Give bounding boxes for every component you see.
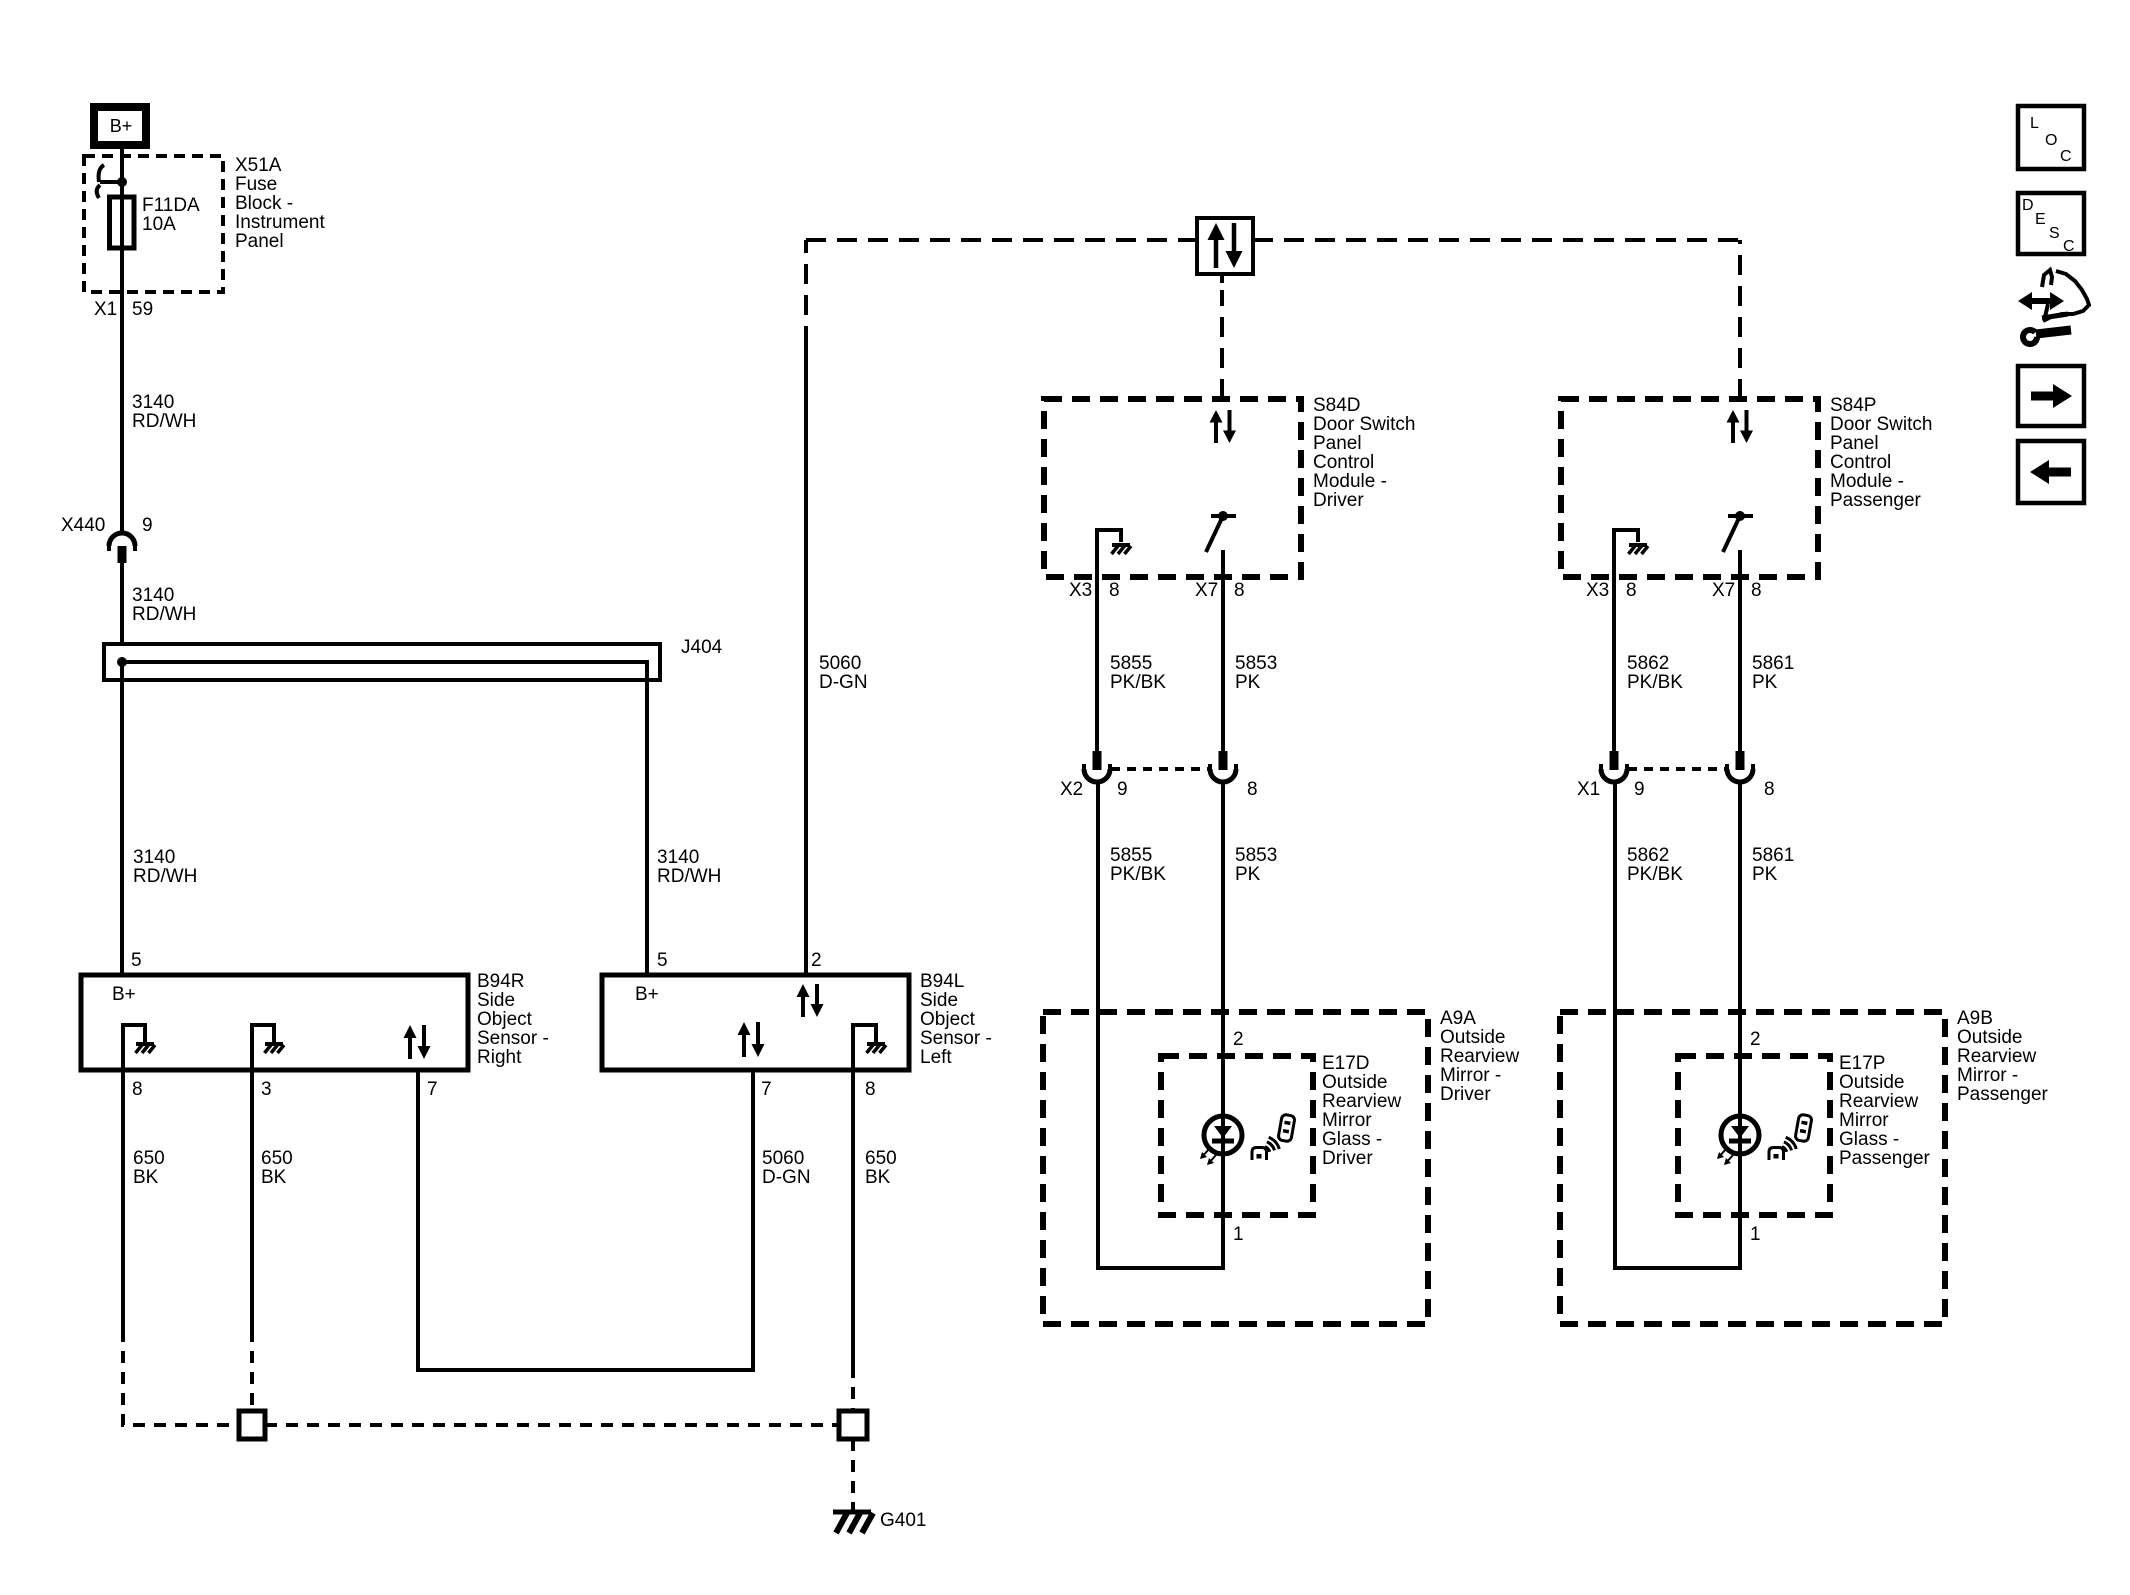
wire LED return (Passenger) <box>1738 1153 1742 1270</box>
svg-text:PK/BK: PK/BK <box>1627 864 1683 885</box>
svg-text:1: 1 <box>1233 1224 1244 1245</box>
svg-text:BK: BK <box>261 1167 287 1188</box>
wire LED return (Driver) <box>1221 1153 1225 1270</box>
svg-text:X3: X3 <box>1069 580 1092 601</box>
connector X2 female arc left (Driver) <box>1084 769 1110 782</box>
svg-text:Control: Control <box>1313 452 1374 473</box>
junction dot in J404 <box>117 657 127 667</box>
connector X1 male pin left (Passenger) <box>1610 751 1619 770</box>
serial data symbol box <box>1197 218 1253 274</box>
svg-text:Side: Side <box>477 990 515 1011</box>
mirror glass module E17P dashed box <box>1678 1056 1830 1215</box>
svg-text:BK: BK <box>865 1167 891 1188</box>
svg-text:A9B: A9B <box>1957 1008 1993 1029</box>
module B94R box <box>81 975 468 1070</box>
svg-text:Outside: Outside <box>1322 1072 1387 1093</box>
side object warning icon (E17P) <box>1795 1114 1812 1142</box>
svg-text:Left: Left <box>920 1047 952 1068</box>
module S84D dashed box <box>1044 399 1301 577</box>
junction dot at fuse feed <box>117 177 127 187</box>
mirror assembly A9A dashed box <box>1043 1012 1428 1324</box>
switch contact bar inside S84P <box>1728 514 1753 518</box>
wire B94L pin 8 650 BK dashed to splice <box>851 1366 855 1411</box>
svg-text:650: 650 <box>133 1148 165 1169</box>
fuse F11DA 10A symbol <box>110 197 135 248</box>
svg-text:Side: Side <box>920 990 958 1011</box>
connector X2 male pin right (Driver) <box>1219 751 1228 770</box>
connector X2 tie line (Driver) <box>1111 767 1209 771</box>
battery feed B+ terminal box <box>94 107 146 145</box>
switch lead inside S84D <box>1221 550 1225 579</box>
switch blade inside S84P <box>1723 518 1739 552</box>
svg-text:X3: X3 <box>1586 580 1609 601</box>
svg-text:D-GN: D-GN <box>819 672 868 693</box>
svg-text:Outside: Outside <box>1839 1072 1904 1093</box>
B94R serial data arrows pin 7 <box>404 1025 417 1038</box>
B94L internal ground lead pin 8 <box>853 1025 876 1070</box>
svg-text:Sensor -: Sensor - <box>477 1028 549 1049</box>
icon back arrow box <box>2018 441 2084 503</box>
svg-text:C: C <box>2060 148 2072 165</box>
ground symbol B94R pin 3 <box>265 1042 283 1046</box>
svg-text:5853: 5853 <box>1235 653 1277 674</box>
svg-text:Driver: Driver <box>1313 490 1364 511</box>
wire through fuse <box>120 199 124 248</box>
svg-text:Passenger: Passenger <box>1957 1084 2049 1105</box>
svg-text:650: 650 <box>261 1148 293 1169</box>
svg-text:S84P: S84P <box>1830 395 1876 416</box>
switch contact dot inside S84P <box>1735 511 1745 521</box>
svg-text:B+: B+ <box>112 984 136 1005</box>
B94R internal ground lead pin 8 <box>123 1025 145 1070</box>
wire B94L pin 8 650 BK solid <box>851 1070 855 1366</box>
wire 5853 PK to mirror LED (Driver) <box>1221 782 1225 1270</box>
svg-text:5: 5 <box>657 950 668 971</box>
svg-text:3140: 3140 <box>132 585 174 606</box>
mirror assembly A9B dashed box <box>1560 1012 1945 1324</box>
svg-text:650: 650 <box>865 1148 897 1169</box>
ground bus dashed horizontal <box>265 1423 839 1427</box>
connector X1 male pin right (Passenger) <box>1736 751 1745 770</box>
bus wire inside J404 to right leg <box>122 662 647 975</box>
svg-text:O: O <box>2045 132 2057 149</box>
svg-text:RD/WH: RD/WH <box>133 866 197 887</box>
switch blade inside S84D <box>1206 518 1222 552</box>
svg-text:Rearview: Rearview <box>1322 1091 1401 1112</box>
icon forward arrow box <box>2018 366 2084 426</box>
wire return bottom link (Passenger) <box>1613 1266 1742 1270</box>
svg-text:X7: X7 <box>1195 580 1218 601</box>
switch contact bar inside S84D <box>1211 514 1236 518</box>
S84D serial data arrows <box>1210 410 1223 423</box>
svg-text:Right: Right <box>477 1047 522 1068</box>
wire fuse to connector X1-59 <box>120 248 124 533</box>
wire 5861 PK from X7-8 (Passenger) <box>1738 579 1742 751</box>
svg-text:59: 59 <box>132 299 153 320</box>
splice box (left) <box>239 1411 265 1439</box>
svg-text:Mirror: Mirror <box>1322 1110 1372 1131</box>
wire 5862 PK/BK from X3-8 (Passenger) <box>1612 579 1616 751</box>
svg-text:PK: PK <box>1235 672 1261 693</box>
wire J404 down to B94R pin 5 <box>120 662 124 975</box>
svg-text:7: 7 <box>761 1079 772 1100</box>
svg-text:C: C <box>2063 238 2075 255</box>
S84P internal ground lead <box>1614 530 1638 579</box>
S84P serial data arrows <box>1727 410 1740 423</box>
in-line connector X440 (female arc) <box>109 533 135 546</box>
svg-text:9: 9 <box>1634 779 1645 800</box>
svg-text:PK: PK <box>1752 672 1778 693</box>
svg-text:BK: BK <box>133 1167 159 1188</box>
connector X1 female arc right (Passenger) <box>1727 769 1753 782</box>
indicator LED E17D <box>1204 1116 1242 1154</box>
svg-text:3140: 3140 <box>132 392 174 413</box>
svg-text:2: 2 <box>1750 1029 1761 1050</box>
connector X1 female arc left (Passenger) <box>1601 769 1627 782</box>
svg-text:PK/BK: PK/BK <box>1110 864 1166 885</box>
S84D internal ground lead <box>1097 530 1121 579</box>
serial data arrows in box <box>1208 223 1225 240</box>
svg-text:Rearview: Rearview <box>1957 1046 2036 1067</box>
svg-text:8: 8 <box>1234 580 1245 601</box>
svg-text:3: 3 <box>261 1079 272 1100</box>
svg-text:E: E <box>2035 211 2046 228</box>
svg-text:Mirror: Mirror <box>1839 1110 1889 1131</box>
data bus dashed drop to S84D <box>1220 275 1224 283</box>
ground symbol B94R pin 8 <box>136 1042 154 1046</box>
svg-text:S: S <box>2049 225 2060 242</box>
ground symbol inside S84P <box>1629 543 1647 547</box>
wire X440 to splice J404 <box>120 561 124 646</box>
data bus dashed horizontal left <box>806 238 1196 242</box>
svg-text:5862: 5862 <box>1627 845 1669 866</box>
svg-text:2: 2 <box>1233 1029 1244 1050</box>
B94L serial data arrows pin 7 <box>738 1022 751 1035</box>
svg-text:5861: 5861 <box>1752 653 1794 674</box>
svg-text:PK/BK: PK/BK <box>1110 672 1166 693</box>
svg-text:B94R: B94R <box>477 971 525 992</box>
connector X2 male pin left (Driver) <box>1093 751 1102 770</box>
switch lead inside S84P <box>1738 550 1742 579</box>
svg-text:S84D: S84D <box>1313 395 1361 416</box>
wire 5855 PK/BK to mirror (Driver) <box>1096 782 1100 1270</box>
svg-text:B+: B+ <box>110 116 133 136</box>
svg-text:Control: Control <box>1830 452 1891 473</box>
svg-text:PK: PK <box>1752 864 1778 885</box>
svg-text:7: 7 <box>427 1079 438 1100</box>
svg-text:F11DA: F11DA <box>142 195 200 216</box>
svg-text:8: 8 <box>132 1079 143 1100</box>
svg-text:5853: 5853 <box>1235 845 1277 866</box>
icon DESC box <box>2018 193 2084 254</box>
data bus dashed drop to S84P <box>1738 240 1742 399</box>
svg-text:Fuse: Fuse <box>235 174 277 195</box>
ground symbol G401 <box>833 1510 871 1515</box>
svg-text:3140: 3140 <box>657 847 699 868</box>
svg-text:Mirror -: Mirror - <box>1957 1065 2018 1086</box>
svg-text:X1: X1 <box>1577 779 1600 800</box>
connector X1 tie line (Passenger) <box>1628 767 1726 771</box>
svg-text:Passenger: Passenger <box>1839 1148 1931 1169</box>
svg-text:8: 8 <box>1626 580 1637 601</box>
wire 5060 dashed vertical to data bus <box>804 240 808 346</box>
ground symbol inside S84D <box>1112 543 1130 547</box>
wire B94R pin 8 650 BK dashed off-page <box>123 1330 237 1425</box>
svg-text:E17P: E17P <box>1839 1053 1885 1074</box>
side object warning icon (E17D) <box>1278 1114 1295 1142</box>
svg-text:Module -: Module - <box>1830 471 1904 492</box>
svg-text:9: 9 <box>1117 779 1128 800</box>
svg-text:Door Switch: Door Switch <box>1830 414 1932 435</box>
wire return bottom link (Driver) <box>1096 1266 1225 1270</box>
svg-text:Object: Object <box>920 1009 976 1030</box>
wire B94R pin7 to B94L pin7 serial link <box>418 1070 753 1370</box>
svg-text:8: 8 <box>1109 580 1120 601</box>
svg-text:Panel: Panel <box>1313 433 1362 454</box>
wire 5855 PK/BK from X3-8 (Driver) <box>1095 579 1099 751</box>
svg-text:1: 1 <box>1750 1224 1761 1245</box>
svg-text:X7: X7 <box>1712 580 1735 601</box>
svg-text:Door Switch: Door Switch <box>1313 414 1415 435</box>
svg-text:3140: 3140 <box>133 847 175 868</box>
svg-text:D-GN: D-GN <box>762 1167 811 1188</box>
svg-text:X1: X1 <box>94 299 117 320</box>
svg-text:Passenger: Passenger <box>1830 490 1922 511</box>
svg-text:5855: 5855 <box>1110 653 1152 674</box>
svg-text:Rearview: Rearview <box>1839 1091 1918 1112</box>
svg-text:G401: G401 <box>880 1510 926 1531</box>
svg-text:10A: 10A <box>142 214 176 235</box>
svg-text:PK: PK <box>1235 864 1261 885</box>
bus tap fork symbol in fuse block <box>99 165 104 182</box>
svg-text:X2: X2 <box>1060 779 1083 800</box>
splice pack J404 outline <box>104 644 660 680</box>
svg-text:5862: 5862 <box>1627 653 1669 674</box>
svg-text:J404: J404 <box>681 637 723 658</box>
wire B+ to fuse block (x=122) <box>120 149 124 199</box>
ground symbol B94L pin 8 <box>867 1042 885 1046</box>
svg-text:5: 5 <box>131 950 142 971</box>
svg-text:Panel: Panel <box>1830 433 1879 454</box>
svg-text:8: 8 <box>865 1079 876 1100</box>
svg-text:PK/BK: PK/BK <box>1627 672 1683 693</box>
svg-text:X440: X440 <box>61 515 105 536</box>
svg-text:Driver: Driver <box>1322 1148 1373 1169</box>
svg-text:D: D <box>2022 197 2034 214</box>
B94L serial data arrows pin 2 <box>797 984 810 997</box>
svg-text:Glass -: Glass - <box>1839 1129 1899 1150</box>
svg-text:Driver: Driver <box>1440 1084 1491 1105</box>
svg-text:E17D: E17D <box>1322 1053 1370 1074</box>
svg-text:B+: B+ <box>635 984 659 1005</box>
indicator LED E17P <box>1721 1116 1759 1154</box>
svg-text:Outside: Outside <box>1440 1027 1505 1048</box>
svg-text:8: 8 <box>1247 779 1258 800</box>
svg-text:9: 9 <box>142 515 153 536</box>
icon repair info (arrow, outline, wrench) <box>2028 298 2054 304</box>
fuse block X51A dashed outline <box>84 156 223 292</box>
svg-text:X51A: X51A <box>235 155 282 176</box>
svg-text:Block -: Block - <box>235 193 293 214</box>
wire B94R pin 8 650 BK solid <box>121 1070 125 1330</box>
wire 5861 PK to mirror LED (Passenger) <box>1738 782 1742 1270</box>
svg-text:L: L <box>2030 115 2039 132</box>
svg-text:Object: Object <box>477 1009 533 1030</box>
icon LOC box <box>2018 106 2084 169</box>
connector X2 female arc right (Driver) <box>1210 769 1236 782</box>
svg-text:5855: 5855 <box>1110 845 1152 866</box>
wire B94R pin 3 650 BK dashed to splice <box>250 1330 254 1411</box>
svg-text:Module -: Module - <box>1313 471 1387 492</box>
wire splice to ground G401 dashed <box>851 1439 855 1510</box>
svg-text:RD/WH: RD/WH <box>132 411 196 432</box>
wire B94L pin 2 5060 D-GN solid <box>804 346 808 975</box>
svg-text:Glass -: Glass - <box>1322 1129 1382 1150</box>
svg-text:8: 8 <box>1751 580 1762 601</box>
svg-text:5861: 5861 <box>1752 845 1794 866</box>
data bus dashed horizontal right <box>1253 238 1740 242</box>
svg-text:Outside: Outside <box>1957 1027 2022 1048</box>
svg-text:Rearview: Rearview <box>1440 1046 1519 1067</box>
in-line connector X440 (male pin) <box>118 546 127 563</box>
svg-text:5060: 5060 <box>819 653 861 674</box>
svg-text:RD/WH: RD/WH <box>132 604 196 625</box>
wire B94R pin 3 650 BK solid <box>250 1070 254 1330</box>
svg-text:2: 2 <box>811 950 822 971</box>
svg-text:A9A: A9A <box>1440 1008 1476 1029</box>
svg-text:RD/WH: RD/WH <box>657 866 721 887</box>
switch contact dot inside S84D <box>1218 511 1228 521</box>
module S84P dashed box <box>1561 399 1818 577</box>
B94R internal ground lead pin 3 <box>252 1025 274 1070</box>
svg-text:8: 8 <box>1764 779 1775 800</box>
wire 5862 PK/BK to mirror (Passenger) <box>1613 782 1617 1270</box>
svg-text:B94L: B94L <box>920 971 964 992</box>
svg-text:Panel: Panel <box>235 231 284 252</box>
mirror glass module E17D dashed box <box>1161 1056 1313 1215</box>
splice box (right) <box>839 1411 867 1439</box>
svg-text:5060: 5060 <box>762 1148 804 1169</box>
svg-text:Mirror -: Mirror - <box>1440 1065 1501 1086</box>
module B94L box <box>602 975 909 1070</box>
svg-text:Instrument: Instrument <box>235 212 325 233</box>
wire 5853 PK from X7-8 (Driver) <box>1221 579 1225 751</box>
svg-text:Sensor -: Sensor - <box>920 1028 992 1049</box>
